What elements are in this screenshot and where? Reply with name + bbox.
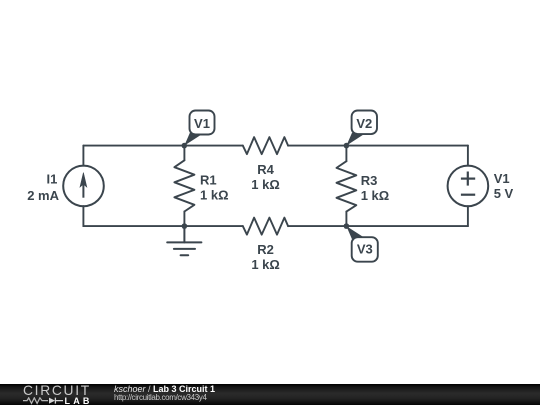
svg-text:R3: R3 [361,173,378,188]
wire V1 source bottom lead [467,206,469,226]
svg-text:5 V: 5 V [494,186,514,201]
footer url line [114,393,207,402]
wire bottom rail left segment [83,225,242,227]
label R4 value [251,162,280,192]
svg-text:V1: V1 [494,171,510,186]
svg-text:2 mA: 2 mA [27,188,59,203]
node B junction dot (V2 net) [344,143,350,149]
CircuitLab logo resistor-diode symbol [22,397,64,405]
wire top rail right segment [288,145,468,147]
ground [167,226,201,255]
node D junction dot (V3 net) [344,223,350,229]
node label V1 box [190,111,215,135]
wire top rail left segment [83,145,242,147]
current source I1 arrow [80,173,87,198]
node label V3 box [352,237,378,262]
svg-text:1 kΩ: 1 kΩ [251,257,280,272]
footer bar [0,384,540,405]
node A junction dot (V1 net) [182,143,188,149]
svg-text:I1: I1 [46,172,57,187]
current source I1 circle [63,166,104,207]
resistor R1 [174,160,194,211]
label R2 value [251,242,280,272]
voltage source V1 plus sign [461,172,475,186]
wire R3 top lead [345,146,347,162]
footer title line [114,384,215,394]
wire R1 bottom lead [183,212,185,227]
label R1 value [200,173,229,203]
node label V1 pointer [184,133,201,146]
CircuitLab logo wordmark CIRCUIT [23,383,91,398]
svg-text:1 kΩ: 1 kΩ [200,188,229,203]
wire bottom rail right segment [288,225,468,227]
wire I1 top lead [82,146,84,166]
label I1 value [27,172,59,203]
resistor R4 [243,137,288,154]
CircuitLab logo wordmark LAB [65,396,93,406]
node label V3 pointer [346,226,364,239]
wire V1 source top lead [467,146,469,166]
label R3 value [361,173,390,203]
voltage source V1 minus sign [461,194,475,196]
node label V2 box [352,111,377,135]
wire R1 top lead [183,146,185,161]
svg-text:1 kΩ: 1 kΩ [361,188,390,203]
resistor R2 [243,218,288,235]
wire R3 bottom lead [345,212,347,227]
svg-text:1 kΩ: 1 kΩ [251,177,280,192]
svg-text:V1: V1 [194,116,210,131]
svg-text:V2: V2 [356,116,372,131]
svg-text:R4: R4 [257,162,274,177]
voltage source V1 circle [448,166,489,207]
svg-text:V3: V3 [357,242,373,257]
svg-text:R2: R2 [257,242,274,257]
wire I1 bottom lead [82,206,84,226]
node C junction dot (ground net) [182,223,188,229]
label V1 source value [494,171,514,201]
resistor R3 [337,161,357,211]
svg-text:R1: R1 [200,173,217,188]
node label V2 pointer [346,133,364,146]
